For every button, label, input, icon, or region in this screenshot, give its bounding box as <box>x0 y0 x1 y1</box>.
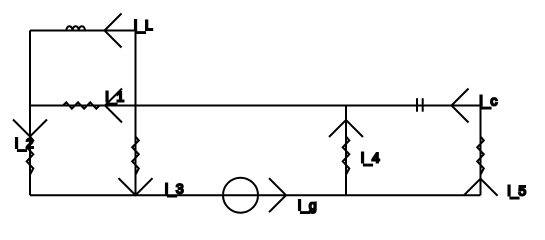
svg-text:i_L: i_L <box>134 17 153 33</box>
arrow i_4 <box>329 120 363 137</box>
wire middle horizontal <box>30 105 481 107</box>
resistor R1 <box>63 102 100 108</box>
arrow i_2 <box>13 120 47 137</box>
resistor R5 <box>477 137 484 175</box>
svg-text:i_5: i_5 <box>508 183 527 199</box>
wire right <box>480 106 482 196</box>
resistor R4 <box>343 137 350 175</box>
wire vertical x346 <box>345 106 347 196</box>
svg-text:i_g: i_g <box>298 197 317 213</box>
wire left <box>29 31 31 196</box>
wire vertical x135 <box>135 31 137 196</box>
svg-text:i_2: i_2 <box>15 135 34 151</box>
arrow i_5 <box>464 179 498 196</box>
svg-text:i_c: i_c <box>480 93 498 109</box>
inductor L <box>66 26 85 30</box>
capacitor C plate right <box>422 98 424 112</box>
arrow i_c <box>452 89 469 123</box>
wire bottom <box>30 194 481 196</box>
capacitor C plate left <box>416 98 418 112</box>
svg-text:i_1: i_1 <box>106 89 125 105</box>
arrow i_3 <box>119 178 153 195</box>
resistor R2 <box>27 137 34 175</box>
wire top <box>30 30 136 32</box>
arrow i_L <box>105 14 122 48</box>
arrow i_g <box>269 178 286 212</box>
arrow i_1 <box>105 89 122 123</box>
svg-text:i_4: i_4 <box>361 150 380 166</box>
current source i_g circle <box>223 178 258 213</box>
resistor R3 <box>132 137 139 175</box>
svg-text:i_3: i_3 <box>165 181 184 197</box>
